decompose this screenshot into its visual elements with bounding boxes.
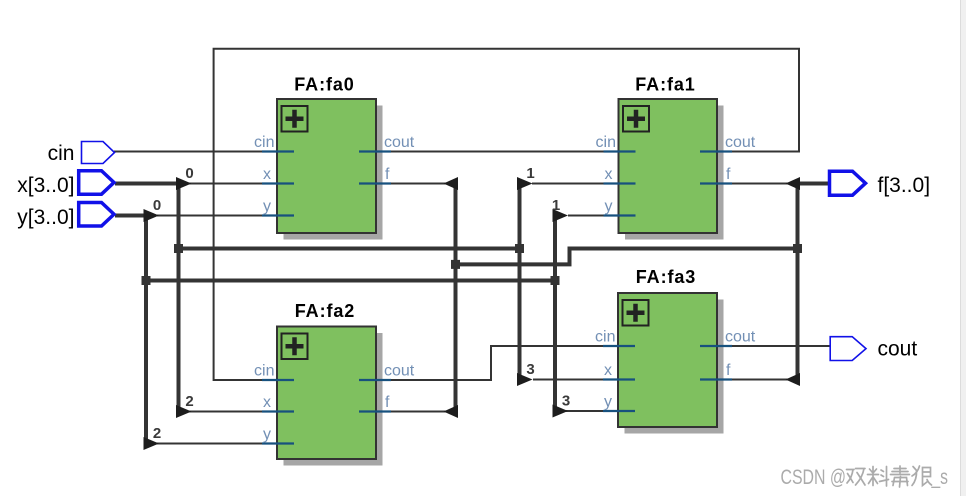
svg-text:FA:fa1: FA:fa1 xyxy=(635,75,695,95)
svg-text:1: 1 xyxy=(526,165,534,182)
svg-text:FA:fa2: FA:fa2 xyxy=(295,301,355,321)
svg-text:f: f xyxy=(385,166,390,183)
svg-text:cout: cout xyxy=(384,134,415,151)
svg-text:cout: cout xyxy=(725,134,756,151)
svg-text:0: 0 xyxy=(153,197,161,214)
svg-text:y[3..0]: y[3..0] xyxy=(17,206,74,229)
svg-text:f: f xyxy=(726,362,731,379)
svg-text:y: y xyxy=(263,198,271,215)
svg-text:1: 1 xyxy=(552,197,560,214)
svg-text:FA:fa3: FA:fa3 xyxy=(636,267,696,287)
svg-text:FA:fa0: FA:fa0 xyxy=(294,75,354,95)
svg-text:cin: cin xyxy=(48,142,75,165)
svg-text:2: 2 xyxy=(153,425,161,442)
svg-text:f: f xyxy=(385,394,390,411)
svg-text:2: 2 xyxy=(185,393,193,410)
svg-text:x: x xyxy=(604,362,612,379)
svg-text:x: x xyxy=(263,394,271,411)
svg-text:CSDN @: CSDN @ xyxy=(781,466,847,489)
svg-text:y: y xyxy=(605,198,613,215)
svg-text:cin: cin xyxy=(595,328,615,345)
svg-text:_s: _s xyxy=(931,466,948,489)
svg-text:cin: cin xyxy=(254,134,274,151)
svg-text:f: f xyxy=(726,166,731,183)
svg-text:y: y xyxy=(604,393,612,410)
svg-text:3: 3 xyxy=(562,392,570,409)
svg-text:x[3..0]: x[3..0] xyxy=(17,174,74,197)
svg-text:3: 3 xyxy=(526,361,534,378)
svg-text:x: x xyxy=(263,166,271,183)
svg-text:x: x xyxy=(605,166,613,183)
svg-text:cout: cout xyxy=(878,338,918,361)
svg-text:cout: cout xyxy=(384,362,415,379)
svg-text:cout: cout xyxy=(725,328,756,345)
svg-text:f[3..0]: f[3..0] xyxy=(878,174,931,197)
svg-text:y: y xyxy=(263,426,271,443)
svg-text:cin: cin xyxy=(254,362,274,379)
svg-text:0: 0 xyxy=(185,165,193,182)
svg-text:cin: cin xyxy=(596,134,616,151)
